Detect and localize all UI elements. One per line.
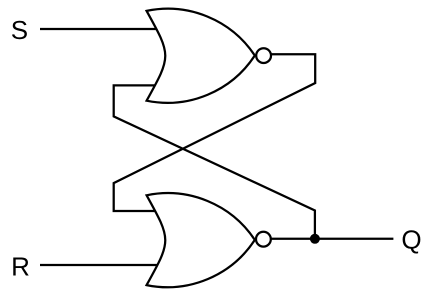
svg-text:Q: Q: [401, 225, 421, 255]
wire Q node feedback to U1 input: [114, 85, 315, 238]
NOR gate U2 (bottom): [147, 193, 255, 287]
svg-text:R: R: [11, 252, 30, 282]
junction dot at node Q: [310, 234, 320, 244]
wire R input: [40, 264, 162, 266]
wire Q output: [271, 238, 393, 240]
wire U1 output feedback to U2 input: [114, 54, 316, 211]
U2 output bubble: [256, 232, 271, 247]
wire S input: [40, 28, 162, 30]
svg-text:S: S: [11, 15, 28, 45]
U1 output bubble: [256, 48, 271, 63]
NOR gate U1 (top): [147, 9, 255, 103]
